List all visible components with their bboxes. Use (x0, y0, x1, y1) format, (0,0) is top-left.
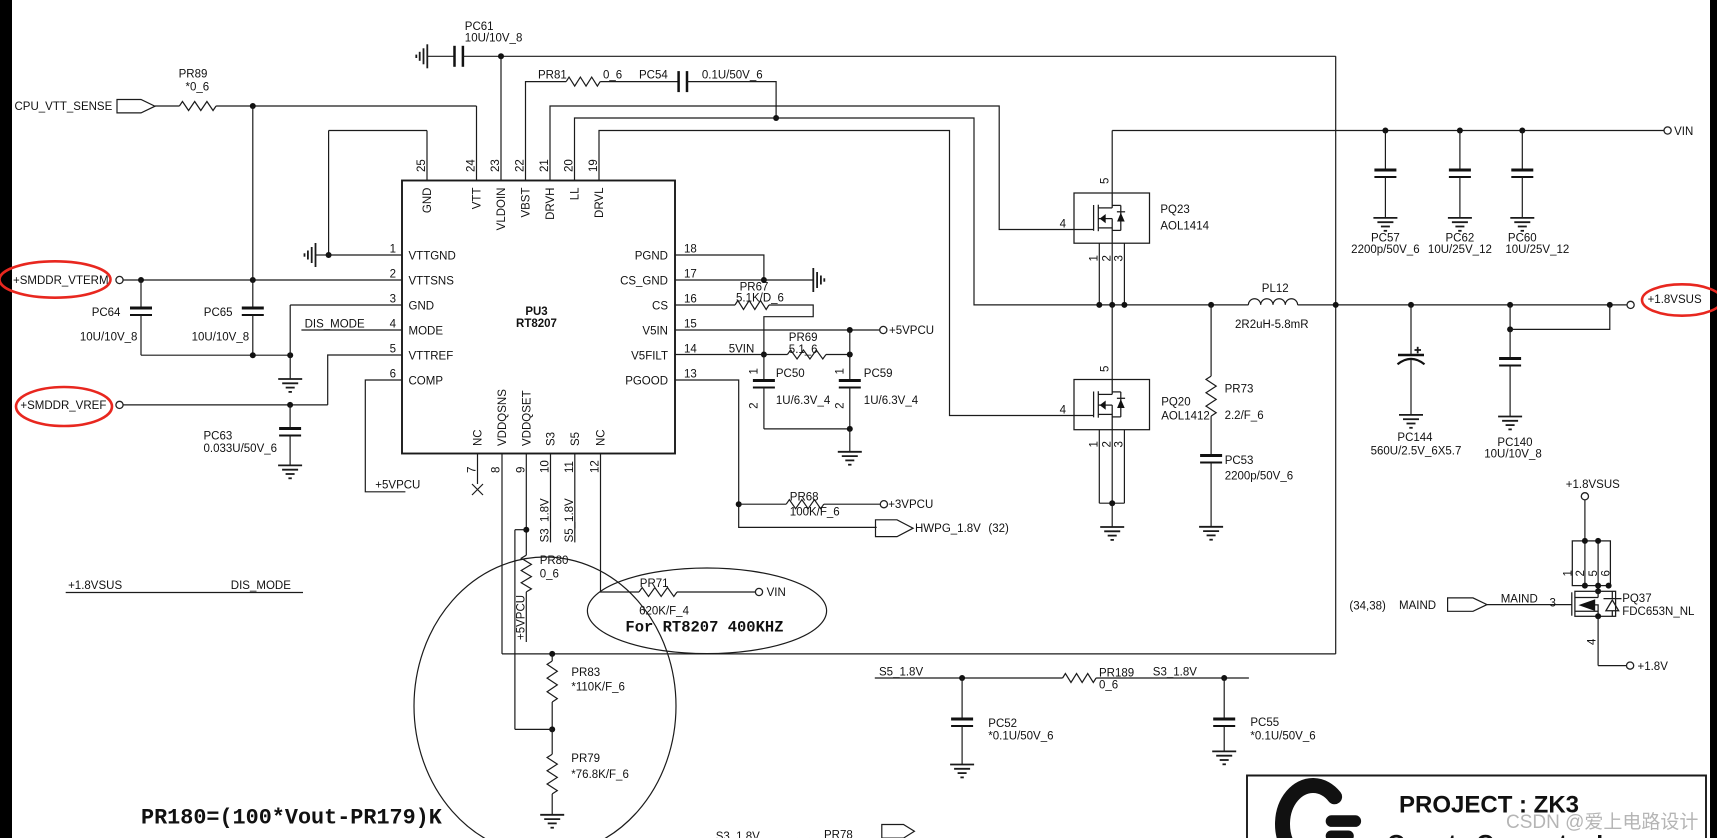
PQ37 diode triangle (1606, 600, 1619, 611)
wire VTERM line (123, 279, 402, 281)
wire to gnd PC59 (849, 429, 851, 452)
capacitor C PC57 (1374, 170, 1396, 177)
svg-text:PQ23: PQ23 (1160, 204, 1189, 216)
svg-text:PC64: PC64 (92, 307, 121, 319)
wire left drop to pin1 (328, 131, 330, 256)
svg-text:*110K/F_6: *110K/F_6 (571, 682, 625, 694)
wire PQ20 source tie (1099, 502, 1124, 504)
PQ20 drain pin 5 wire (1111, 305, 1113, 380)
resistor PR73 lead (1210, 305, 1212, 376)
node junction caps gnd (847, 426, 853, 432)
svg-text:COMP: COMP (409, 376, 444, 388)
svg-text:6: 6 (1600, 570, 1612, 576)
svg-text:5: 5 (1100, 366, 1112, 372)
node junction d5 bot (1595, 583, 1601, 589)
wire VTT sense drop (252, 106, 254, 280)
node junction loop/output (1333, 302, 1339, 308)
svg-text:100K/F_6: 100K/F_6 (790, 507, 840, 519)
wire gnd drop (289, 305, 291, 379)
svg-text:10U/10V_8: 10U/10V_8 (465, 33, 523, 45)
svg-text:15: 15 (684, 319, 697, 331)
node junction PC54/LL (773, 115, 779, 121)
svg-text:10U/25V_12: 10U/25V_12 (1428, 244, 1492, 256)
svg-text:DIS_MODE: DIS_MODE (305, 319, 365, 331)
capacitor PC140 (1499, 359, 1521, 366)
ground PC55 (1212, 751, 1236, 764)
wire PR68 left lead (739, 503, 787, 505)
svg-text:PR71: PR71 (640, 578, 669, 590)
node junction PC63 (287, 402, 293, 408)
PQ23 drain pin 5 wire (1111, 131, 1113, 194)
wire legend underline (66, 592, 303, 594)
resistor PR80 (521, 555, 531, 592)
wire PC61 to right loop (463, 55, 1336, 57)
capacitor PC65 lead (252, 280, 254, 308)
wire pin24 VTT stub (476, 106, 478, 181)
svg-text:1U/6.3V_4: 1U/6.3V_4 (776, 395, 831, 407)
wire gnd to PC61 (427, 55, 454, 57)
wire VIN line (1112, 130, 1664, 132)
svg-text:5VIN: 5VIN (729, 343, 755, 355)
wire gnd stub pin1 (316, 254, 329, 256)
wire CS jog (764, 305, 813, 355)
svg-text:GND: GND (409, 301, 435, 313)
resistor PR79 lead (551, 729, 553, 754)
svg-text:*76.8K/F_6: *76.8K/F_6 (571, 769, 629, 781)
ground PC52 (950, 765, 974, 778)
PQ37 body diode (1604, 592, 1622, 617)
svg-text:1: 1 (749, 368, 761, 374)
wire pin4 MODE stub (301, 329, 402, 331)
svg-text:0.033U/50V_6: 0.033U/50V_6 (204, 443, 278, 455)
svg-text:21: 21 (539, 159, 551, 172)
wire output rail (1298, 304, 1628, 306)
svg-text:CS_GND: CS_GND (620, 276, 668, 288)
svg-text:AOL1414: AOL1414 (1160, 221, 1209, 233)
wire pin18 PGND jog (675, 255, 764, 280)
wire pin19 DRVL to PQ20 gate (599, 131, 1094, 416)
svg-text:PC55: PC55 (1250, 717, 1279, 729)
svg-text:V5FILT: V5FILT (631, 351, 668, 363)
wire pin1 VTTGND stub (329, 254, 402, 256)
svg-text:PR68: PR68 (790, 492, 819, 504)
svg-text:20: 20 (564, 159, 576, 172)
title block box (1247, 776, 1706, 838)
svg-text:PC53: PC53 (1225, 455, 1254, 467)
svg-text:+SMDDR_VREF: +SMDDR_VREF (20, 400, 106, 412)
svg-text:6: 6 (390, 369, 396, 381)
svg-text:+1.8VSUS: +1.8VSUS (1648, 294, 1702, 306)
wire MAIND to gate (1487, 604, 1572, 606)
wire PR71 to VIN (677, 591, 755, 593)
capacitor PC53 lead (1210, 416, 1212, 455)
svg-text:PC59: PC59 (864, 368, 893, 380)
svg-text:560U/2.5V_6X5.7: 560U/2.5V_6X5.7 (1371, 446, 1462, 458)
black scan border left (0, 0, 12, 838)
port circle +1.8VSUS (1627, 301, 1634, 308)
svg-text:2R2uH-5.8mR: 2R2uH-5.8mR (1235, 319, 1309, 331)
wire caps bottom tie (764, 428, 850, 430)
svg-text:3: 3 (1550, 598, 1556, 610)
svg-text:18: 18 (684, 244, 697, 256)
svg-text:S3_1.8V: S3_1.8V (1153, 667, 1197, 679)
resistor PR83 lead (551, 654, 553, 661)
resistor PR83 (547, 661, 557, 702)
svg-text:10U/10V_8: 10U/10V_8 (192, 332, 250, 344)
capacitor PC65 (242, 308, 264, 315)
svg-text:VBST: VBST (521, 188, 533, 218)
ground PC144 (1399, 415, 1423, 428)
wire pin23 VLDOIN stub (500, 56, 502, 180)
ground PC60 (1510, 218, 1534, 231)
node junction pin9 (523, 527, 529, 533)
capacitor PC64 lead top (140, 280, 142, 308)
svg-text:NC: NC (596, 429, 608, 446)
wire pin13 PGOOD drop (675, 380, 877, 527)
capacitor PC144 lead (1410, 305, 1412, 355)
port circle +SMDDR_VREF (116, 401, 123, 408)
svg-text:CS: CS (652, 301, 668, 313)
wire S5 rail (875, 677, 1063, 679)
svg-text:4: 4 (1587, 638, 1599, 645)
port circle VIN (1664, 127, 1671, 134)
svg-text:PR89: PR89 (179, 69, 208, 81)
logo C arc (1283, 785, 1335, 838)
svg-text:PR69: PR69 (789, 332, 818, 344)
port MAIND connector (1448, 598, 1487, 611)
ground PC140 (1498, 417, 1522, 430)
svg-text:16: 16 (684, 294, 697, 306)
wire +1.8VSUS to PQ37 (1584, 500, 1586, 541)
svg-text:VTT: VTT (472, 188, 484, 210)
svg-text:PGOOD: PGOOD (625, 376, 668, 388)
svg-text:+3VPCU: +3VPCU (888, 499, 933, 511)
wire pin12 to PR71 (601, 454, 640, 593)
PQ20 leg 1 wire (1098, 430, 1100, 504)
svg-text:19: 19 (588, 159, 600, 172)
red annotation ellipse VTERM (0, 261, 111, 297)
svg-text:VTTGND: VTTGND (409, 251, 456, 263)
svg-text:PR78: PR78 (824, 830, 853, 838)
ground PC50/PC59 (838, 452, 862, 465)
wire PC57 to gnd (1384, 177, 1386, 218)
wire pin6 COMP to +5VPCU (365, 380, 405, 492)
svg-text:PC63: PC63 (204, 431, 233, 443)
PQ20 leg 2 wire (1111, 430, 1113, 504)
svg-text:CPU_VTT_SENSE: CPU_VTT_SENSE (15, 101, 113, 113)
svg-text:10U/10V_8: 10U/10V_8 (80, 332, 138, 344)
capacitor PC144 plate (1398, 354, 1424, 357)
svg-text:PC65: PC65 (204, 307, 233, 319)
svg-text:HWPG_1.8V: HWPG_1.8V (915, 523, 981, 535)
svg-text:2.2/F_6: 2.2/F_6 (1225, 410, 1264, 422)
capacitor PC53 (1200, 456, 1222, 463)
resistor PR81 (566, 77, 600, 86)
node junction pin1 (326, 252, 332, 258)
wire PC65 bottom lead (252, 315, 254, 355)
wire pin25 GND stub (426, 131, 428, 181)
svg-text:1: 1 (1089, 255, 1101, 261)
svg-text:+1.8VSUS: +1.8VSUS (68, 580, 122, 592)
logo bar 2 (1326, 831, 1354, 838)
transistor PQ23 AOL1414 (1074, 193, 1150, 243)
node junction V5IN (847, 327, 853, 333)
capacitor PC54 (679, 71, 687, 92)
svg-text:10U/10V_8: 10U/10V_8 (1484, 449, 1542, 461)
svg-text:PU3: PU3 (525, 306, 547, 318)
capacitor PC63 lead (289, 405, 291, 429)
ground PQ20 (1100, 527, 1124, 540)
node junction VTT line (250, 103, 256, 109)
capacitor PC140 lead (1509, 329, 1511, 358)
wire PC60 to gnd (1521, 177, 1523, 218)
svg-text:8: 8 (491, 467, 503, 473)
wire pin14 V5FILT (675, 354, 787, 356)
capacitor PC55 lead (1223, 678, 1225, 719)
node junction PR79 top (549, 726, 555, 732)
svg-text:VTTREF: VTTREF (409, 351, 454, 363)
PQ23 leg 2 wire (1111, 243, 1113, 305)
svg-text:PR81: PR81 (538, 70, 567, 82)
svg-text:4: 4 (1060, 405, 1067, 417)
svg-text:0_6: 0_6 (603, 70, 622, 82)
wire +5VPCU to junction (515, 728, 552, 730)
svg-text:VLDOIN: VLDOIN (496, 188, 508, 231)
wire pin21 DRVH to PQ23 gate (550, 106, 1094, 230)
svg-text:1: 1 (1089, 441, 1101, 447)
node junction d6 bot (1606, 583, 1612, 589)
PQ37 drain lead 5 (1597, 541, 1599, 586)
port CPU_VTT_SENSE connector (117, 100, 155, 113)
capacitor C PC60 lead (1521, 131, 1523, 171)
PQ37 gate bar (1571, 592, 1573, 615)
node junction V5FILT/CS (761, 352, 767, 358)
node junction VLDOIN/PC61 (498, 53, 504, 59)
svg-text:7: 7 (467, 467, 479, 473)
capacitor PC64 (130, 308, 152, 315)
svg-text:5.1K/D_6: 5.1K/D_6 (736, 293, 784, 305)
svg-text:FDC653N_NL: FDC653N_NL (1622, 606, 1695, 618)
ground PC57 (1373, 218, 1397, 231)
capacitor PC59 lead (849, 355, 851, 381)
svg-text:0_6: 0_6 (540, 569, 559, 581)
wire +5VPCU vertical (849, 330, 851, 355)
red annotation ellipse VREF (16, 387, 112, 426)
wire pin9 branch left (515, 529, 526, 531)
svg-text:+5VPCU: +5VPCU (516, 595, 528, 640)
capacitor PC50 (753, 381, 775, 388)
wire pin8 VDDQSNS drop (501, 454, 503, 654)
svg-text:PL12: PL12 (1262, 283, 1289, 295)
svg-text:10: 10 (540, 460, 552, 473)
resistor PR69 (787, 350, 826, 359)
node junction PC52 (959, 675, 965, 681)
capacitor PC63 (279, 429, 301, 436)
svg-text:3: 3 (1114, 441, 1126, 447)
svg-text:+SMDDR_VTERM: +SMDDR_VTERM (13, 275, 109, 287)
logo bar 1 (1326, 815, 1361, 827)
port circle VIN (PR71) (755, 588, 762, 595)
svg-text:2: 2 (1101, 255, 1113, 261)
svg-text:PC50: PC50 (776, 368, 805, 380)
svg-text:PC52: PC52 (988, 718, 1017, 730)
wire pin20 LL to switch node (575, 118, 1249, 305)
svg-text:24: 24 (466, 159, 478, 172)
inductor PL12 (1248, 299, 1297, 305)
wire PR89 to pin24 (216, 105, 476, 107)
node junction d2 top (1582, 538, 1588, 544)
svg-text:S5: S5 (570, 432, 582, 446)
capacitor PC52 (951, 719, 973, 726)
svg-text:PGND: PGND (635, 251, 668, 263)
svg-text:5: 5 (1100, 178, 1112, 184)
wire VREF up to pin5 (328, 355, 402, 405)
ground CS_GND (sideways right) (813, 268, 824, 292)
svg-text:MAIND: MAIND (1501, 594, 1538, 606)
port circle +3VPCU (880, 501, 887, 508)
IC PU3 RT8207 body (402, 181, 675, 454)
svg-text:*0_6: *0_6 (186, 82, 210, 94)
wire S3 rail (1096, 677, 1249, 679)
node junction d5 top (1595, 538, 1601, 544)
node junction PC57 (1382, 128, 1388, 134)
svg-text:VIN: VIN (1674, 126, 1693, 138)
svg-text:(34,38): (34,38) (1349, 601, 1386, 613)
svg-text:S3_1.8V: S3_1.8V (540, 498, 552, 542)
wire right loop vertical (1335, 56, 1337, 654)
svg-text:2: 2 (749, 402, 761, 408)
node junction PC64 top (138, 277, 144, 283)
node junction leg2 (1109, 302, 1115, 308)
capacitor PC59 (839, 381, 861, 388)
svg-text:9: 9 (515, 467, 527, 473)
wire PC55 to gnd (1223, 726, 1225, 752)
svg-text:1: 1 (390, 244, 396, 256)
wire pin7 stub (477, 454, 479, 485)
wire PC64 bottom lead (140, 315, 142, 355)
node junction PC60 (1519, 128, 1525, 134)
svg-text:10U/25V_12: 10U/25V_12 (1505, 244, 1569, 256)
PQ37 arrow (1579, 599, 1596, 611)
svg-text:VDDQSNS: VDDQSNS (497, 389, 509, 446)
svg-text:S5_1.8V: S5_1.8V (564, 498, 576, 542)
svg-text:1: 1 (835, 368, 847, 374)
svg-text:VDDQSET: VDDQSET (522, 390, 534, 446)
svg-text:1U/6.3V_4: 1U/6.3V_4 (864, 395, 919, 407)
svg-text:14: 14 (684, 344, 697, 356)
wire PC63 bottom lead (289, 435, 291, 465)
ground pin1 (sideways) (305, 243, 316, 267)
svg-text:23: 23 (490, 159, 502, 172)
wire CPU_VTT_SENSE to PR89 (155, 105, 179, 107)
svg-text:2: 2 (1101, 441, 1113, 447)
capacitor C PC62 lead (1459, 131, 1461, 171)
svg-text:2: 2 (390, 269, 396, 281)
wire PR79 to gnd (551, 794, 553, 815)
svg-text:PC54: PC54 (639, 70, 668, 82)
transistor PQ20 AOL1412 (1074, 380, 1150, 430)
ground PC63 (278, 465, 302, 478)
svg-text:S3_1.8V: S3_1.8V (716, 831, 760, 838)
wire PR80 to +5VPCU (525, 592, 527, 642)
svg-text:PC140: PC140 (1497, 437, 1532, 449)
node junction PC62 (1457, 128, 1463, 134)
svg-text:17: 17 (684, 269, 697, 281)
svg-text:PR180=(100*Vout-PR179)K: PR180=(100*Vout-PR179)K (141, 806, 443, 831)
svg-text:PR79: PR79 (571, 753, 600, 765)
wire bottom loop horizontal (502, 653, 1336, 655)
port circle +5VPCU (880, 326, 887, 333)
svg-text:S5_1.8V: S5_1.8V (879, 667, 923, 679)
node junction PC140 top (1507, 302, 1513, 308)
svg-text:VTTSNS: VTTSNS (409, 276, 455, 288)
node junction output sense (1607, 302, 1613, 308)
capacitor C PC62 (1449, 170, 1471, 177)
svg-text:*0.1U/50V_6: *0.1U/50V_6 (1250, 731, 1315, 743)
wire +5VPCU drop (514, 530, 516, 730)
PQ23 leg 3 wire (1123, 243, 1125, 305)
wire PR81 to PC54 (600, 81, 678, 83)
node junction caps bottom (250, 352, 256, 358)
capacitor C PC60 (1511, 170, 1533, 177)
svg-text:S3: S3 (546, 432, 558, 446)
wire PQ37 source (1597, 616, 1599, 665)
wire PC59 bottom (849, 387, 851, 429)
wire PC54 to LL line (687, 82, 776, 118)
capacitor PC52 lead (961, 678, 963, 719)
node junction PQ37 source (1595, 613, 1601, 619)
node junction PC55 (1221, 675, 1227, 681)
wire pin10 S3 stub (550, 454, 552, 543)
wire caps bottom rail (141, 354, 290, 356)
svg-text:3: 3 (1114, 255, 1126, 261)
ground pin3/caps (278, 379, 302, 392)
resistor PR189 (1063, 674, 1097, 683)
port circle +SMDDR_VTERM (116, 276, 123, 283)
node junction pin17/18 (761, 277, 767, 283)
PQ37 drain lead 2 (1584, 541, 1586, 586)
svg-text:+5VPCU: +5VPCU (375, 480, 420, 492)
wire pin16 CS stub (675, 304, 735, 306)
resistor PR73 (1206, 376, 1216, 416)
node junction PC59 top (847, 352, 853, 358)
capacitor PC55 (1213, 719, 1235, 726)
node junction leg1 (1096, 302, 1102, 308)
PQ20 leg 3 wire (1123, 430, 1125, 504)
svg-text:NC: NC (473, 429, 485, 446)
svg-text:For RT8207 400KHZ: For RT8207 400KHZ (625, 619, 783, 637)
wire pin9 VDDQSET stub (525, 454, 527, 556)
svg-text:+1.8VSUS: +1.8VSUS (1566, 479, 1620, 491)
svg-text:PC62: PC62 (1446, 233, 1475, 245)
node junction leg3 (1121, 302, 1127, 308)
node junction PQ20 source (1109, 500, 1115, 506)
svg-text:V5IN: V5IN (642, 326, 668, 338)
svg-text:VIN: VIN (767, 587, 786, 599)
node junction PR68 (736, 501, 742, 507)
port connector (bottom partial) (882, 825, 915, 838)
svg-text:4: 4 (1060, 219, 1067, 231)
resistor PR71 (639, 588, 677, 597)
black scan border right (1710, 0, 1717, 838)
wire pin25 to left (329, 130, 427, 132)
svg-text:*0.1U/50V_6: *0.1U/50V_6 (988, 731, 1053, 743)
PQ37 drain group box (1572, 541, 1610, 586)
wire pin3 GND stub (290, 304, 402, 306)
node junction gnd rail (287, 352, 293, 358)
svg-text:PQ37: PQ37 (1622, 593, 1651, 605)
ground PC61 (sideways) (416, 44, 427, 68)
